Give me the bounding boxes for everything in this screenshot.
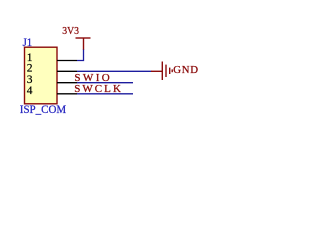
pin 3 line [57, 82, 77, 84]
svg-text:4: 4 [27, 85, 33, 97]
power port 3V3 bar [76, 37, 91, 39]
wire pin1 to 3V3 [77, 50, 84, 61]
power port 3V3 stub [83, 38, 85, 50]
ground symbol bar 2 [165, 65, 167, 77]
svg-text:ISP_COM: ISP_COM [20, 104, 66, 116]
svg-text:GND: GND [173, 64, 198, 76]
pin 1 line [57, 60, 77, 62]
ground symbol bar 4 [171, 69, 173, 72]
svg-text:3V3: 3V3 [62, 25, 79, 37]
connector J1 body [25, 47, 58, 104]
ground symbol bar 1 [161, 62, 163, 81]
pin 4 line [57, 93, 77, 95]
ground symbol bar 3 [169, 68, 171, 74]
svg-text:J1: J1 [23, 35, 33, 49]
svg-text:2: 2 [27, 63, 33, 75]
ground symbol stub [151, 70, 162, 72]
wire SWCLK (pin4) [77, 93, 133, 95]
wire SWIO (pin3) [77, 82, 133, 84]
wire pin2 to GND [77, 70, 152, 72]
pin 2 line [57, 70, 77, 72]
